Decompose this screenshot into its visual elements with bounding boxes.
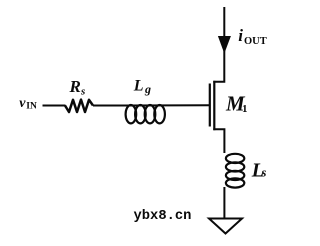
- transistor M1 gate plate: [209, 84, 211, 127]
- svg-text:s: s: [261, 165, 267, 179]
- svg-text:v: v: [19, 96, 26, 111]
- svg-text:s: s: [80, 86, 85, 98]
- svg-text:i: i: [238, 26, 243, 45]
- current arrow iOUT: [218, 36, 231, 54]
- inductor Lg: [126, 105, 165, 123]
- ground: [209, 219, 242, 234]
- wire inductor to gate: [126, 104, 210, 106]
- svg-text:OUT: OUT: [244, 36, 267, 47]
- wire Ls to ground: [223, 187, 225, 219]
- transistor M1 source stub: [213, 129, 224, 153]
- transistor M1 drain stub: [213, 7, 224, 82]
- svg-text:IN: IN: [26, 102, 37, 112]
- svg-text:L: L: [133, 78, 144, 95]
- wire resistor to inductor: [93, 105, 126, 107]
- inductor Ls: [226, 154, 244, 188]
- resistor Rs: [65, 100, 93, 112]
- wire input to resistor: [43, 105, 66, 107]
- svg-text:1: 1: [242, 103, 248, 115]
- svg-text:R: R: [69, 77, 81, 96]
- svg-text:ybx8.cn: ybx8.cn: [134, 208, 192, 224]
- transistor M1 channel: [213, 81, 215, 130]
- svg-text:g: g: [144, 82, 151, 96]
